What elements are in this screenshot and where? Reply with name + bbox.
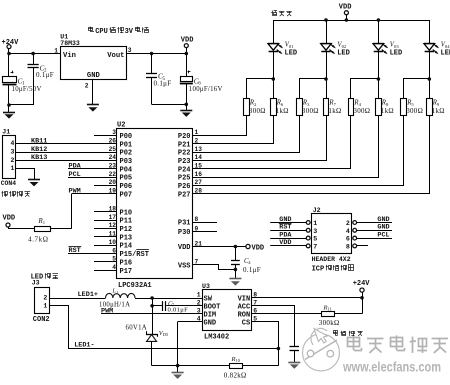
svg-text:22: 22	[109, 171, 117, 178]
wire ACC	[252, 306, 295, 347]
wire PWM	[69, 188, 118, 196]
U1 pin3 wire	[127, 47, 187, 54]
resistor R9 1kohm	[193, 99, 445, 194]
svg-text:P01: P01	[120, 141, 133, 149]
wire PCL	[68, 171, 117, 179]
U2 pin labels	[109, 129, 203, 276]
svg-text:PDA: PDA	[69, 163, 82, 171]
zener diode VD5	[126, 306, 170, 366]
connector J1 CON4	[1, 129, 17, 188]
U2 right stubs P31 P30	[193, 223, 218, 232]
svg-text:Vin: Vin	[63, 52, 76, 60]
svg-text:4.7kΩ: 4.7kΩ	[28, 236, 48, 244]
svg-text:KB12: KB12	[31, 146, 47, 154]
resistor R5 300ohm	[193, 79, 430, 186]
svg-text:2: 2	[10, 157, 14, 164]
svg-text:P02: P02	[120, 150, 133, 158]
svg-text:1: 1	[195, 129, 199, 136]
svg-text:J1: J1	[2, 129, 10, 136]
svg-text:3: 3	[197, 308, 201, 315]
capacitor C4 0.1uF	[231, 247, 261, 275]
svg-text:GND: GND	[377, 216, 389, 224]
capacitor C5 0.1uF	[146, 52, 171, 105]
ground U1	[87, 105, 99, 112]
svg-text:4: 4	[346, 228, 350, 235]
svg-text:4: 4	[112, 264, 116, 271]
wire RST	[68, 247, 117, 256]
svg-text:0.01μF: 0.01μF	[168, 307, 189, 314]
svg-text:6: 6	[346, 236, 350, 243]
ground C1	[3, 113, 15, 119]
LED V01	[268, 20, 297, 98]
U1 pin2 gnd wire	[85, 79, 93, 105]
svg-text:25: 25	[109, 146, 117, 153]
svg-text:VDD: VDD	[339, 3, 352, 11]
svg-text:LED1+: LED1+	[78, 291, 98, 299]
svg-text:LED: LED	[285, 50, 298, 58]
svg-text:SW: SW	[204, 295, 213, 303]
svg-text:P24: P24	[178, 166, 191, 174]
svg-text:2: 2	[197, 300, 201, 307]
inductor L1 100uH	[99, 289, 135, 309]
svg-text:14: 14	[195, 154, 203, 161]
+24V terminal right	[353, 280, 371, 298]
svg-text:P22: P22	[178, 150, 191, 158]
svg-text:www.elecfans.com: www.elecfans.com	[342, 359, 441, 375]
svg-text:GND: GND	[279, 216, 291, 224]
capacitor C6 100uF/16V	[180, 54, 223, 105]
svg-text:1: 1	[54, 47, 58, 54]
wire GND pin4 U3	[178, 322, 203, 366]
label LED输出	[31, 273, 58, 281]
svg-text:0.1μF: 0.1μF	[154, 79, 172, 87]
svg-text:J2: J2	[313, 207, 321, 214]
svg-text:DIM: DIM	[204, 311, 217, 319]
svg-text:0.1μF: 0.1μF	[243, 266, 261, 274]
svg-text:7: 7	[313, 244, 317, 251]
watermark logo and text	[303, 328, 448, 374]
+24V terminal	[2, 39, 20, 77]
wire VDD pin21	[193, 244, 265, 252]
svg-text:P27: P27	[178, 191, 191, 199]
svg-text:1: 1	[10, 165, 14, 172]
resistor R1 4.7k	[3, 194, 72, 244]
connector J3 CON2	[32, 280, 50, 324]
J2 name	[312, 256, 351, 263]
svg-text:P21: P21	[178, 141, 191, 149]
svg-text:8: 8	[195, 216, 199, 223]
MCU U2 box	[117, 122, 193, 279]
wire J3 pin1 LED1-	[50, 306, 279, 350]
svg-text:P12: P12	[120, 226, 133, 234]
svg-text:P06: P06	[120, 183, 133, 191]
svg-text:P10: P10	[120, 209, 133, 217]
U2 left stub wires	[94, 136, 117, 271]
svg-text:300Ω: 300Ω	[249, 107, 266, 115]
svg-text:P05: P05	[120, 175, 133, 183]
svg-text:RST: RST	[69, 247, 81, 255]
svg-text:300Ω: 300Ω	[302, 107, 319, 115]
ground C4	[229, 279, 241, 286]
svg-text:P00: P00	[120, 133, 133, 141]
svg-text:2: 2	[195, 137, 199, 144]
gnd rail bottom	[152, 364, 230, 372]
capacitor C7 0.01uF	[150, 298, 202, 314]
svg-text:GND: GND	[204, 319, 217, 327]
svg-text:ACC: ACC	[238, 303, 251, 311]
svg-text:CON2: CON2	[33, 316, 50, 324]
pin1 label U1	[54, 47, 58, 54]
svg-text:KB13: KB13	[31, 154, 47, 162]
LED V04	[424, 20, 450, 98]
svg-text:1: 1	[313, 220, 317, 227]
svg-text:VIN: VIN	[238, 295, 251, 303]
rail junctions	[324, 18, 380, 22]
svg-text:2: 2	[43, 295, 47, 302]
ground C5C6	[180, 111, 192, 117]
svg-text:PCL: PCL	[377, 231, 389, 239]
svg-text:P11: P11	[120, 218, 133, 226]
svg-text:LED: LED	[390, 50, 403, 58]
svg-text:P14: P14	[120, 243, 133, 251]
ground power stage	[172, 373, 184, 379]
svg-text:RON: RON	[238, 311, 251, 319]
capacitor C1 10uF/50V	[3, 71, 42, 105]
resistor R6 1kohm	[193, 99, 289, 144]
svg-text:8: 8	[346, 244, 350, 251]
svg-text:3: 3	[128, 47, 132, 54]
svg-text:RST: RST	[279, 224, 291, 232]
connector J2 HEADER4X2	[306, 207, 356, 254]
resistor R10 0.82k	[224, 347, 280, 380]
svg-text:P16: P16	[120, 259, 133, 267]
resistor R7 1kohm	[193, 99, 342, 161]
svg-text:02: 02	[342, 44, 347, 49]
svg-text:LED: LED	[337, 50, 350, 58]
svg-text:28: 28	[195, 188, 203, 195]
svg-text:P04: P04	[120, 166, 133, 174]
svg-text:4: 4	[10, 140, 14, 147]
svg-text:P13: P13	[120, 234, 133, 242]
capacitor C8	[290, 347, 300, 363]
ground node C1	[7, 103, 33, 112]
svg-text:03: 03	[394, 44, 399, 49]
svg-text:1kΩ: 1kΩ	[432, 107, 445, 115]
svg-text:01: 01	[289, 44, 294, 49]
wire PDA	[68, 163, 117, 171]
resistor R8 1kohm	[193, 99, 394, 178]
resistor R3 300ohm	[193, 79, 327, 153]
svg-text:P07: P07	[120, 191, 133, 199]
svg-text:+24V: +24V	[353, 280, 371, 288]
svg-text:1: 1	[197, 292, 201, 299]
svg-text:J3: J3	[32, 280, 40, 287]
svg-text:1: 1	[116, 290, 118, 295]
svg-text:BOOT: BOOT	[204, 303, 221, 311]
svg-text:P03: P03	[120, 158, 133, 166]
svg-text:3: 3	[10, 148, 14, 155]
svg-text:LM3402: LM3402	[204, 333, 229, 341]
VDD terminal LEDs	[339, 3, 352, 21]
svg-text:P17: P17	[120, 268, 133, 276]
wire KB12	[16, 146, 118, 154]
J2 right wires	[357, 216, 392, 246]
svg-text:0.82kΩ: 0.82kΩ	[224, 371, 247, 379]
wire LED1+	[50, 291, 106, 299]
svg-text:GND: GND	[377, 224, 389, 232]
svg-text:LED1-: LED1-	[74, 342, 94, 350]
svg-text:LED: LED	[441, 50, 450, 58]
svg-text:P26: P26	[178, 183, 191, 191]
LED V03	[373, 20, 402, 98]
svg-text:Vout: Vout	[107, 52, 124, 60]
U2 part name	[118, 282, 152, 290]
svg-text:ICP: ICP	[312, 266, 325, 274]
label 电源输入	[333, 330, 362, 336]
buck driver U3 LM3402	[197, 283, 258, 341]
ground C8	[288, 363, 300, 369]
label 按键输入	[1, 191, 30, 197]
svg-text:1kΩ: 1kΩ	[276, 107, 289, 115]
svg-text:P31: P31	[178, 220, 191, 228]
svg-text:2: 2	[346, 220, 350, 227]
svg-text:KB11: KB11	[31, 138, 47, 146]
resistor R2 300ohm	[193, 79, 274, 136]
node jog V03	[377, 77, 381, 81]
wire RON	[252, 313, 322, 315]
svg-text:PWM: PWM	[69, 188, 81, 196]
ground J1	[28, 180, 40, 187]
LED V02	[321, 20, 350, 98]
wire PWM to DIM	[101, 308, 202, 316]
VDD rail	[273, 20, 429, 22]
wire VIN +24V	[252, 296, 364, 300]
svg-text:300Ω: 300Ω	[353, 107, 370, 115]
wire SW node	[135, 296, 202, 300]
svg-text:D5: D5	[163, 332, 169, 337]
capacitor C2 0.1uF	[28, 52, 54, 105]
svg-text:300Ω: 300Ω	[406, 107, 423, 115]
wire VSS	[193, 265, 238, 280]
wire KB13	[16, 154, 118, 162]
svg-text:3: 3	[313, 228, 317, 235]
svg-text:100μF/16V: 100μF/16V	[189, 86, 223, 93]
svg-text:17: 17	[109, 214, 117, 221]
node jog V04	[428, 77, 432, 81]
regulator U1 78M33	[60, 33, 126, 80]
svg-text:CS: CS	[242, 319, 250, 327]
node jog V02	[324, 77, 328, 81]
svg-text:1kΩ: 1kΩ	[381, 107, 394, 115]
svg-text:VDD: VDD	[252, 244, 265, 252]
J2 left wires	[270, 216, 306, 247]
svg-text:0.1μF: 0.1μF	[36, 71, 54, 79]
svg-text:CPU: CPU	[95, 28, 108, 36]
svg-text:GND: GND	[87, 72, 101, 80]
svg-text:VDD: VDD	[279, 239, 291, 247]
resistor R11 300k	[319, 298, 363, 327]
svg-text:VSS: VSS	[178, 262, 191, 270]
svg-text:16: 16	[195, 171, 203, 178]
svg-text:1kΩ: 1kΩ	[328, 107, 341, 115]
VDD terminal (3V rail)	[181, 36, 194, 55]
svg-text:5: 5	[313, 236, 317, 243]
wire CS	[252, 322, 279, 349]
svg-text:300kΩ: 300kΩ	[319, 319, 340, 327]
svg-text:10: 10	[109, 239, 117, 246]
svg-text:PCL: PCL	[69, 171, 81, 179]
svg-text:VDD: VDD	[178, 244, 191, 252]
node input junction	[7, 52, 60, 56]
svg-text:15: 15	[195, 163, 203, 170]
svg-text:P23: P23	[178, 158, 191, 166]
svg-text:P25: P25	[178, 175, 191, 183]
svg-text:11: 11	[328, 307, 332, 312]
label 指示灯	[271, 11, 292, 17]
svg-text:P30: P30	[178, 229, 191, 237]
title 为CPU提供3V电源	[88, 27, 148, 37]
svg-text:1: 1	[43, 303, 47, 310]
gnd node C5 C6	[152, 103, 189, 111]
wire KB11	[16, 138, 118, 146]
label ICP编程接口	[312, 265, 354, 274]
svg-text:P15/RST: P15/RST	[120, 251, 149, 259]
svg-text:CON4: CON4	[1, 180, 17, 187]
svg-text:04: 04	[445, 44, 450, 49]
svg-text:27: 27	[195, 179, 203, 186]
svg-text:LPC932A1: LPC932A1	[118, 282, 152, 290]
node jog V01	[272, 77, 276, 81]
svg-text:HEADER 4X2: HEADER 4X2	[312, 256, 351, 263]
wire J1 pin1 gnd	[16, 169, 35, 180]
svg-text:13: 13	[195, 146, 203, 153]
svg-text:PWM: PWM	[101, 308, 113, 316]
svg-text:PDA: PDA	[279, 231, 292, 239]
svg-text:2: 2	[85, 83, 89, 90]
svg-text:P20: P20	[178, 133, 191, 141]
svg-text:3V: 3V	[125, 28, 134, 36]
svg-text:4: 4	[197, 316, 201, 323]
svg-text:60V1A: 60V1A	[126, 325, 148, 332]
resistor R4 300ohm	[193, 79, 379, 169]
svg-text:VDD: VDD	[3, 215, 16, 223]
svg-text:10μF/50V: 10μF/50V	[12, 86, 42, 93]
